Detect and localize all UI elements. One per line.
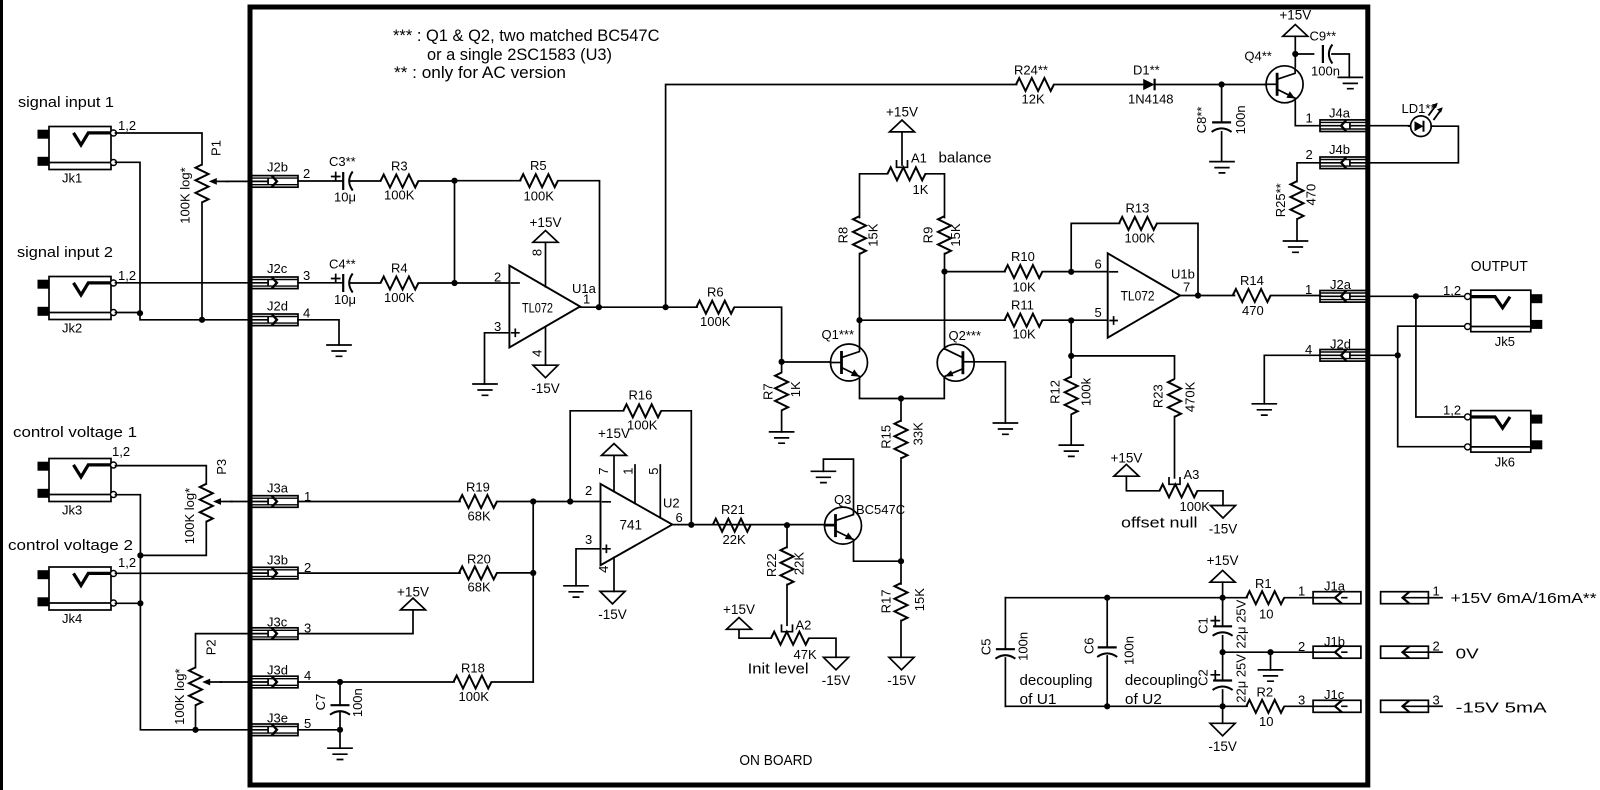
junction C1 top rail [1220, 595, 1226, 601]
svg-text:+15V: +15V [598, 426, 630, 441]
wire pin5 node down [1070, 321, 1072, 356]
resistor R18 [454, 676, 492, 689]
svg-text:100K: 100K [384, 188, 415, 203]
wire Q1 emitter [860, 378, 902, 399]
wire C2 bottom [1222, 690, 1224, 706]
U2 pin 1 stub [634, 465, 636, 503]
potentiometer P3 [200, 484, 213, 522]
resistor R11 [1005, 314, 1043, 327]
wire Jk4 pin1 to J3b [116, 572, 252, 574]
svg-text:C4**: C4** [329, 256, 356, 271]
svg-text:470K: 470K [1182, 381, 1197, 412]
potentiometer P2 [189, 667, 202, 705]
svg-text:R19: R19 [466, 479, 490, 494]
connector J4b [1320, 157, 1367, 169]
wire ground stub [1270, 652, 1272, 670]
wire Jk1 pin2 down [116, 162, 141, 313]
svg-text:A2: A2 [796, 617, 812, 632]
wire Jk2 pin2 to junction [116, 312, 141, 314]
connector J3d [252, 676, 299, 688]
-15V at A2 [824, 657, 849, 670]
resistor R4 [381, 277, 419, 290]
svg-text:Jk4: Jk4 [62, 611, 82, 626]
wire P2 wiper to J3d [221, 681, 252, 683]
wire R12 to ground [1070, 415, 1072, 446]
wire R19 to U2 pin2 [497, 501, 601, 503]
junction output to Jk6 [1413, 293, 1419, 299]
svg-text:BC547C: BC547C [856, 502, 905, 517]
svg-text:-15V: -15V [887, 673, 916, 688]
junction U1a pin2 node [451, 280, 457, 286]
wire J4a to LD1 [1367, 125, 1411, 127]
external pin3 stub [1428, 705, 1442, 707]
svg-text:100n: 100n [1015, 632, 1030, 661]
wire P1 wiper to J2b [227, 180, 251, 182]
svg-text:+15V: +15V [1110, 450, 1142, 465]
wire +15V to A1 tap [901, 132, 903, 165]
junction R9 R10 Q2 base [941, 269, 947, 275]
svg-text:J2a: J2a [1330, 277, 1352, 292]
capacitor C5 [995, 649, 1015, 659]
wire C6 bottom [1106, 656, 1108, 706]
op-amp U1a [509, 266, 580, 348]
svg-text:C1: C1 [1195, 617, 1210, 634]
wire C6 top [1106, 598, 1108, 648]
resistor R6 [696, 301, 734, 314]
wire Jk2 pin1 to J2c [116, 282, 252, 284]
wire Q2 emitter [901, 378, 944, 399]
connector J4a [1320, 120, 1367, 132]
wire R7 to ground [781, 411, 783, 432]
P2 wiper arrow [202, 679, 221, 686]
ground at R25 [1284, 241, 1308, 252]
svg-text:+15V: +15V [723, 602, 755, 617]
svg-text:5: 5 [646, 468, 661, 475]
U2 plus input mark [603, 545, 610, 552]
wire R5 to output [558, 181, 600, 308]
junction C7 on J3e line [337, 727, 343, 733]
junction R20 branch [530, 498, 536, 504]
svg-text:10K: 10K [1013, 279, 1036, 294]
connector J2c [252, 277, 299, 289]
svg-text:J4a: J4a [1329, 105, 1351, 120]
svg-text:signal input 2: signal input 2 [17, 244, 113, 261]
-15V at power rail [1210, 723, 1235, 736]
wire C9 right to ground [1332, 54, 1349, 77]
resistor R7 [775, 373, 788, 411]
capacitor C8 [1212, 122, 1232, 131]
wire +15V stub [1222, 582, 1224, 598]
junction R13 branch [1068, 269, 1074, 275]
wire emitters to R15 [900, 399, 902, 422]
external pin1 stub [1428, 597, 1442, 599]
svg-text:5: 5 [304, 716, 311, 731]
junction C9 branch [1292, 51, 1298, 57]
wire C5 bottom [1004, 658, 1006, 706]
resistor R12 [1065, 377, 1078, 415]
svg-text:TL072: TL072 [522, 301, 553, 316]
svg-text:470: 470 [1242, 303, 1264, 318]
wire node to Q2 base [944, 272, 946, 349]
connector J3e [252, 724, 299, 736]
svg-text:3: 3 [1298, 692, 1305, 707]
wire R6 to Q1 base node [735, 307, 782, 362]
svg-text:*** : Q1 & Q2, two matched BC5: *** : Q1 & Q2, two matched BC547C [393, 26, 660, 45]
wire C2 top [1222, 652, 1224, 680]
jack Jk1 [38, 127, 117, 186]
U1a pin 4 wire [545, 327, 547, 365]
junction C8 top [1219, 81, 1225, 87]
wire P1 bottom [201, 202, 203, 320]
connector J2d left [252, 314, 299, 326]
svg-text:+15V: +15V [397, 585, 429, 600]
svg-text:A3: A3 [1184, 467, 1200, 482]
wire C9 left [1295, 53, 1313, 55]
svg-text:J2c: J2c [267, 261, 288, 276]
wire J3e to C7 [298, 729, 340, 731]
wire C8 to ground [1221, 132, 1223, 162]
wire R18 to vertical [492, 681, 534, 683]
external pin2 stub [1428, 651, 1442, 653]
capacitor C4 [332, 274, 353, 293]
wire R3 to node [419, 180, 455, 182]
wire A1 right to R9 [926, 174, 945, 218]
wire to Jk6 pin1 [1416, 296, 1464, 417]
wire Q1 collector node to R11 [860, 319, 1006, 321]
connector J1a [1313, 592, 1361, 604]
resistor R22 [781, 547, 794, 585]
svg-text:R12: R12 [1047, 380, 1062, 404]
wire U1b output [1180, 295, 1234, 297]
junction P1 bottom on J2d line [199, 317, 205, 323]
resistor R1 [1246, 591, 1284, 604]
ground at U2 pin3 [564, 586, 588, 597]
svg-text:R8: R8 [835, 227, 850, 244]
junction R3/R5 node [451, 178, 457, 184]
svg-text:6: 6 [676, 510, 683, 525]
wire P3 wiper to J3a [231, 501, 251, 503]
wire top power rail [1005, 597, 1247, 599]
svg-text:signal input 1: signal input 1 [18, 94, 114, 111]
svg-text:100K log*: 100K log* [182, 488, 197, 544]
svg-text:1K: 1K [788, 381, 803, 397]
+15V at A1 [890, 120, 915, 132]
svg-text:+15V: +15V [1279, 8, 1311, 23]
svg-text:2: 2 [1306, 147, 1313, 162]
wire R24 to D1 [1054, 84, 1143, 86]
junction emitters [898, 395, 904, 401]
svg-text:6: 6 [1095, 256, 1102, 271]
svg-text:+15V: +15V [530, 215, 562, 230]
svg-text:LD1**: LD1** [1402, 101, 1436, 116]
wire R22 bottom to A2 tap [786, 585, 788, 626]
connector J3a [252, 496, 299, 508]
svg-text:R13: R13 [1126, 200, 1150, 215]
svg-text:J2d: J2d [267, 299, 288, 314]
junction P3 bottom meets Jk3 pin2 line [137, 552, 143, 558]
svg-text:1N4148: 1N4148 [1128, 91, 1174, 106]
ground at Q2 collector [993, 423, 1017, 434]
svg-text:R23: R23 [1150, 384, 1165, 408]
junction C6 bottom [1104, 703, 1110, 709]
svg-text:1: 1 [1433, 584, 1440, 599]
wire R15 to R17 [900, 458, 902, 584]
svg-text:2: 2 [303, 166, 310, 181]
U2 pin 7 wire [613, 455, 615, 491]
svg-text:offset null: offset null [1121, 515, 1198, 532]
wire C5 top [1004, 598, 1006, 650]
wire A3 left to +15V [1126, 476, 1159, 491]
svg-text:1: 1 [583, 292, 590, 307]
svg-text:R20: R20 [467, 551, 491, 566]
svg-text:A1: A1 [911, 150, 927, 165]
wire P2 top to J3c line [196, 634, 252, 668]
wire R10 to U1b pin6 [1043, 271, 1108, 273]
svg-text:1: 1 [1305, 282, 1312, 297]
svg-text:R1: R1 [1255, 576, 1272, 591]
junction P2 bottom on J3e line [192, 727, 198, 733]
svg-text:P3: P3 [214, 459, 229, 475]
wire Q4 base stub [1265, 84, 1266, 86]
svg-text:12K: 12K [1022, 91, 1045, 106]
svg-text:100K: 100K [1125, 231, 1156, 246]
svg-text:1,2: 1,2 [1443, 283, 1461, 298]
ground at R7 [770, 432, 794, 443]
wire R14 to J2a [1271, 295, 1321, 297]
svg-text:J3c: J3c [267, 615, 288, 630]
junction R12 branch [1068, 317, 1074, 323]
svg-text:J2b: J2b [267, 160, 288, 175]
svg-text:100K: 100K [627, 417, 658, 432]
U2 minus input mark [603, 501, 611, 503]
+15V at U1a [533, 231, 558, 243]
svg-text:C8**: C8** [1194, 107, 1209, 134]
wire -15V stub [1222, 706, 1224, 723]
wire J2c to C4 [298, 282, 343, 284]
svg-text:R22: R22 [764, 553, 779, 577]
svg-text:R16: R16 [629, 387, 653, 402]
svg-text:J1a: J1a [1324, 579, 1346, 594]
wire bottom power rail [1005, 705, 1247, 707]
svg-text:100K: 100K [524, 189, 555, 204]
junction Jk4 pin2 [137, 600, 143, 606]
wire Q1 base [782, 361, 831, 363]
svg-text:68K: 68K [468, 508, 491, 523]
svg-text:R25**: R25** [1273, 183, 1288, 217]
junction C6 top [1104, 595, 1110, 601]
svg-text:0V: 0V [1456, 645, 1479, 662]
svg-text:R6: R6 [707, 285, 724, 300]
svg-text:Jk3: Jk3 [62, 503, 82, 518]
resistor R19 [459, 495, 497, 508]
svg-text:3: 3 [585, 532, 592, 547]
wire Q2 collector to ground [974, 362, 1005, 423]
ground at Q3 collector [811, 471, 835, 482]
wire R1 to J1a [1285, 597, 1315, 599]
wire LD1 to J4b loop [1367, 126, 1459, 163]
svg-text:15K: 15K [912, 588, 927, 611]
wire Jk3 pin2 down [116, 495, 141, 604]
op-amp U2 741 [601, 484, 673, 565]
U2 pin 4 wire [613, 557, 615, 591]
connector J1c [1313, 700, 1361, 712]
svg-text:J1b: J1b [1324, 634, 1345, 649]
svg-text:control voltage 2: control voltage 2 [8, 537, 133, 554]
svg-text:C5: C5 [978, 638, 993, 655]
svg-text:Jk2: Jk2 [62, 321, 82, 336]
wire mid rail to J1b [1223, 651, 1314, 653]
wire R4 to pin2 node [419, 282, 455, 284]
svg-text:22μ 25V: 22μ 25V [1233, 599, 1248, 648]
svg-text:22K: 22K [723, 532, 746, 547]
wire node to R10 [945, 271, 1006, 273]
wire node to U1a pin 2 [455, 282, 510, 284]
wire node down to pin2 line [454, 181, 456, 283]
wire R20/R18 vertical [532, 502, 534, 683]
ground at R12 [1059, 445, 1083, 456]
svg-text:10μ: 10μ [334, 190, 356, 205]
svg-text:100K log*: 100K log* [177, 167, 192, 223]
wire A3 right to -15V [1198, 491, 1224, 506]
resistor R13 feedback [1119, 217, 1157, 230]
junction Q1 collector node [856, 317, 862, 323]
diode D1 1N4148 [1143, 79, 1154, 91]
svg-text:15K: 15K [865, 223, 880, 246]
trimmer A3 offset null [1160, 484, 1198, 497]
transistor Q3 [825, 507, 862, 544]
wire R9 to node [944, 254, 946, 272]
transistor Q4 [1266, 66, 1303, 103]
svg-text:100n: 100n [1121, 636, 1136, 665]
-15V at U2 [600, 591, 625, 604]
svg-text:3: 3 [303, 268, 310, 283]
capacitor C1 [1211, 617, 1232, 636]
svg-text:33K: 33K [910, 422, 925, 445]
wire J3a to R19 [298, 501, 460, 503]
ground at J2d [1252, 404, 1276, 415]
resistor R5 [520, 174, 558, 187]
board boundary ON BOARD frame [250, 7, 1368, 785]
-15V at R17 [889, 657, 914, 670]
svg-text:Q2***: Q2*** [949, 328, 982, 343]
wire node to R5 [455, 180, 521, 182]
svg-text:100n: 100n [350, 688, 365, 717]
svg-text:1K: 1K [913, 182, 929, 197]
svg-text:7: 7 [596, 468, 611, 475]
svg-text:J3e: J3e [267, 711, 288, 726]
wire Jk3 pin1 to P3 top [116, 466, 207, 484]
svg-text:or a single 2SC1583 (U3): or a single 2SC1583 (U3) [427, 45, 612, 64]
svg-text:-15V: -15V [1209, 521, 1238, 536]
wire J2b to C3 [298, 180, 343, 182]
svg-text:100K: 100K [459, 689, 490, 704]
svg-text:1,2: 1,2 [112, 444, 130, 459]
svg-text:100K log*: 100K log* [172, 669, 187, 725]
svg-text:Q1***: Q1*** [822, 327, 855, 342]
wire J2d inside to ground [1264, 355, 1320, 404]
wire C3 to R3 [350, 180, 381, 182]
resistor R23 [1168, 379, 1181, 417]
+15V at J3c [401, 598, 426, 610]
svg-text:1: 1 [1306, 110, 1313, 125]
wire D1 to Q4 base [1155, 84, 1265, 86]
svg-text:TL072: TL072 [1121, 289, 1155, 304]
wire A2 right to -15V [809, 638, 836, 657]
svg-text:-15V 5mA: -15V 5mA [1456, 700, 1547, 717]
op-amp U1b [1108, 253, 1181, 337]
svg-text:10K: 10K [1013, 326, 1036, 341]
wire R20 to vertical [497, 572, 533, 574]
svg-text:decoupling: decoupling [1125, 672, 1198, 689]
svg-text:-15V: -15V [598, 607, 627, 622]
wire up to Jk5 pin2 [1398, 326, 1465, 355]
wire J2d to ground [298, 320, 339, 345]
ground at C8 [1210, 162, 1234, 173]
svg-text:8: 8 [530, 249, 545, 256]
wire A2 left to +15V [739, 629, 771, 638]
svg-text:68K: 68K [468, 579, 491, 594]
svg-text:R7: R7 [760, 383, 775, 400]
wire R17 to -15V [900, 621, 902, 658]
svg-text:2: 2 [494, 270, 501, 285]
jack Jk6 [1465, 411, 1543, 470]
svg-text:3: 3 [494, 319, 501, 334]
svg-text:+15V: +15V [1207, 553, 1239, 568]
wire R13 loop [1071, 223, 1198, 295]
trimmer A1 balance [888, 167, 926, 180]
external connector pin 2 [1381, 646, 1429, 658]
wire U2 pin3 to ground [576, 549, 601, 586]
svg-text:100k: 100k [1078, 377, 1093, 406]
svg-text:1: 1 [1298, 584, 1305, 599]
svg-text:470: 470 [1303, 184, 1318, 206]
ground at J2d left [327, 345, 351, 356]
svg-text:22K: 22K [791, 552, 806, 575]
connector J3b [252, 567, 299, 579]
transistor Q2 [937, 344, 974, 381]
wire J2d to Jk5/Jk6 pin2 [1367, 354, 1398, 356]
svg-text:2: 2 [1433, 639, 1440, 654]
junction R16 branch [567, 498, 573, 504]
svg-text:10: 10 [1259, 714, 1273, 729]
wire R7 top [781, 362, 783, 373]
svg-text:decoupling: decoupling [1020, 672, 1093, 689]
resistor R20 [459, 566, 497, 579]
left edge bar [0, 0, 3, 790]
+15V at A3 [1114, 464, 1139, 476]
wire J3d to R18 [298, 681, 454, 683]
wire U1a output [580, 306, 697, 308]
wire R16 loop [570, 411, 691, 525]
svg-text:R15: R15 [878, 425, 893, 449]
svg-text:-15V: -15V [822, 673, 851, 688]
svg-text:R4: R4 [391, 260, 408, 275]
connector J3c [252, 628, 299, 640]
resistor R25 [1291, 181, 1304, 219]
svg-text:C3**: C3** [329, 154, 356, 169]
wire junction to J2d line [140, 313, 251, 320]
capacitor C2 [1211, 671, 1232, 690]
svg-text:** : only for AC version: ** : only for AC version [394, 63, 566, 82]
wire C4 to R4 [350, 282, 381, 284]
wire U2 output to Q3 base [672, 524, 833, 526]
connector J2b [252, 176, 299, 188]
wire Q3 collector to ground [823, 459, 853, 510]
jack Jk2 [38, 277, 117, 336]
connector J2d right [1320, 350, 1367, 362]
svg-text:J1c: J1c [1324, 687, 1345, 702]
wire P3 bottom to junction [140, 522, 206, 556]
